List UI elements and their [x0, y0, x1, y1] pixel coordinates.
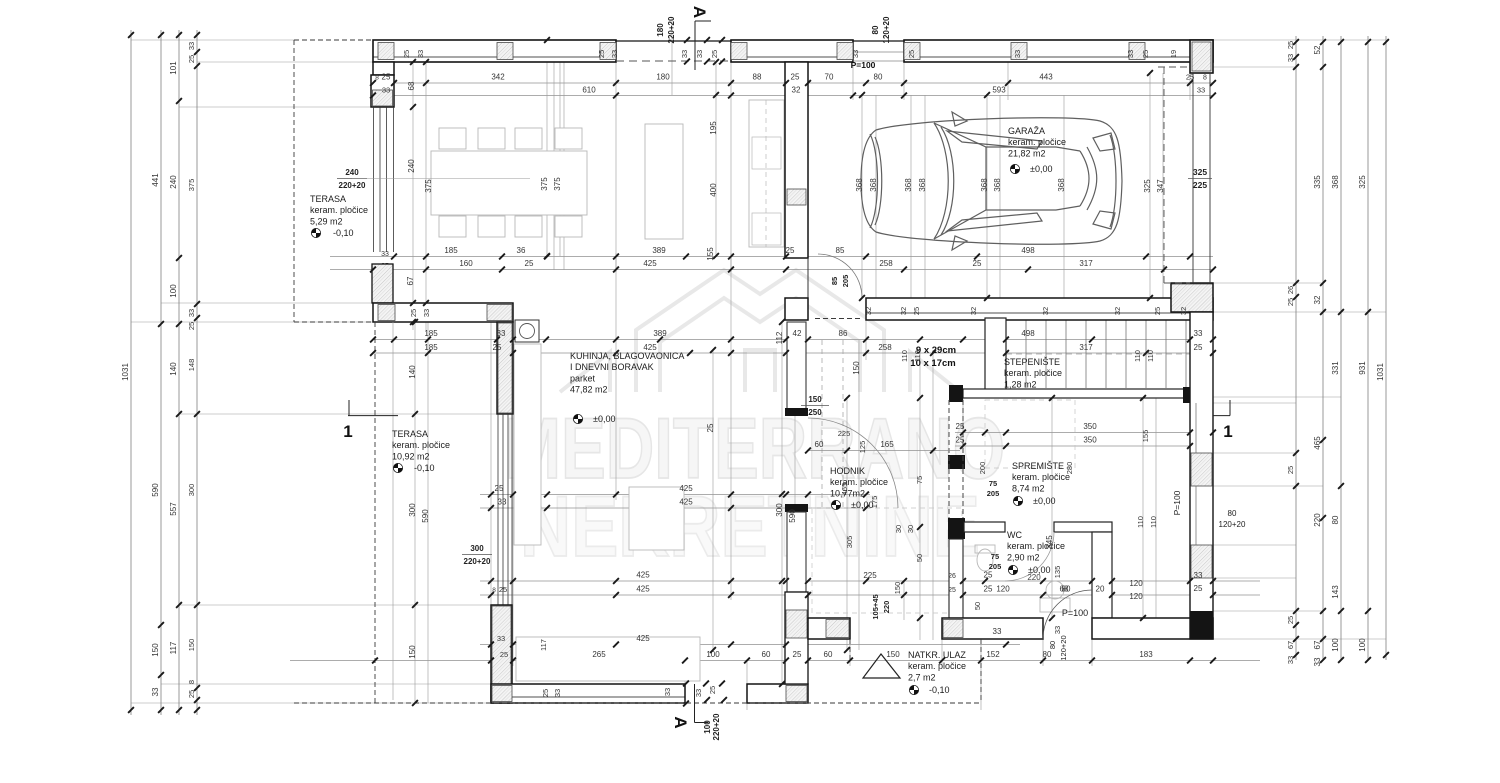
svg-text:33: 33 [187, 42, 196, 50]
svg-text:80: 80 [1228, 509, 1237, 518]
svg-text:keram. pločice: keram. pločice [830, 477, 888, 487]
wall left hatch block [372, 264, 393, 303]
wall top segment 1 [373, 40, 616, 62]
svg-text:25: 25 [708, 686, 717, 694]
svg-text:200: 200 [978, 462, 987, 475]
svg-text:205: 205 [987, 489, 1000, 498]
wall left bottom [491, 605, 512, 703]
wardrobe [749, 100, 784, 247]
svg-text:317: 317 [1079, 343, 1093, 352]
svg-text:135: 135 [1053, 566, 1062, 579]
wall bottom segment 2 [747, 684, 808, 703]
svg-text:keram. pločice: keram. pločice [908, 661, 966, 671]
svg-text:parket: parket [570, 373, 596, 383]
right dim chain 1 [1295, 36, 1297, 660]
stair south wall [963, 389, 1190, 398]
right dim chain 2 [1322, 36, 1324, 660]
dining chairs [439, 128, 466, 149]
hodnik west wall block [785, 298, 808, 320]
svg-text:117: 117 [539, 639, 548, 651]
svg-text:150: 150 [187, 639, 196, 652]
svg-text:±0,00: ±0,00 [1033, 496, 1055, 506]
east wall window lines [1195, 403, 1197, 453]
svg-text:465: 465 [1313, 436, 1322, 450]
entrance wall mid [942, 618, 1043, 639]
svg-text:80: 80 [1331, 515, 1340, 524]
kitchen counter bottom [516, 637, 700, 681]
svg-text:100: 100 [706, 650, 720, 659]
svg-text:425: 425 [679, 498, 693, 507]
svg-text:20: 20 [1096, 585, 1105, 594]
svg-text:25: 25 [706, 423, 715, 432]
ticks lower rows [488, 578, 494, 584]
dimension row lines top [373, 82, 1213, 84]
svg-text:375: 375 [424, 179, 433, 193]
svg-text:120: 120 [1129, 579, 1143, 588]
svg-text:-0,10: -0,10 [929, 685, 950, 695]
wc north wall [964, 522, 1005, 532]
svg-text:33: 33 [382, 86, 390, 95]
svg-text:67: 67 [406, 276, 415, 285]
svg-text:225: 225 [1193, 180, 1207, 190]
svg-text:25: 25 [948, 587, 956, 594]
svg-text:183: 183 [1139, 650, 1153, 659]
svg-text:85: 85 [836, 246, 845, 255]
svg-text:GARAŽA: GARAŽA [1008, 126, 1045, 136]
svg-text:110: 110 [1136, 516, 1145, 528]
right dim chain 5 [1385, 36, 1387, 660]
svg-text:389: 389 [653, 329, 667, 338]
extension lines horizontal right [1213, 39, 1386, 41]
svg-text:25: 25 [1286, 616, 1295, 624]
svg-text:33: 33 [422, 309, 431, 317]
svg-text:140: 140 [408, 365, 417, 379]
svg-text:25: 25 [1286, 41, 1295, 49]
svg-text:25: 25 [1194, 584, 1203, 593]
svg-text:120+20: 120+20 [882, 16, 891, 43]
svg-text:150: 150 [886, 650, 900, 659]
svg-text:335: 335 [1313, 175, 1322, 189]
svg-text:25: 25 [495, 484, 504, 493]
svg-text:110: 110 [1149, 516, 1158, 528]
wall top segment 3 [904, 40, 1213, 62]
wall top opening door 80 [853, 40, 904, 42]
svg-text:86: 86 [839, 329, 848, 338]
svg-text:375: 375 [553, 177, 562, 191]
svg-text:A: A [671, 716, 690, 728]
svg-text:2,7 m2: 2,7 m2 [908, 672, 936, 682]
svg-text:25: 25 [710, 50, 719, 58]
svg-text:331: 331 [1331, 361, 1340, 375]
watermark house logo [560, 270, 960, 392]
svg-text:347: 347 [1156, 179, 1165, 193]
svg-text:32: 32 [1041, 307, 1050, 315]
living sideboard [645, 124, 683, 239]
svg-text:105+45: 105+45 [871, 594, 880, 619]
svg-text:120+20: 120+20 [1219, 520, 1246, 529]
east wall [1190, 312, 1213, 639]
svg-text:I DNEVNI BORAVAK: I DNEVNI BORAVAK [570, 362, 654, 372]
svg-text:88: 88 [753, 73, 762, 82]
svg-text:258: 258 [878, 343, 892, 352]
svg-text:465: 465 [840, 483, 849, 496]
stair treads [1005, 320, 1007, 388]
svg-text:33: 33 [1053, 626, 1062, 634]
svg-text:25: 25 [187, 322, 196, 330]
svg-text:TERASA: TERASA [310, 194, 346, 204]
svg-text:70: 70 [825, 73, 834, 82]
svg-text:25: 25 [912, 307, 921, 315]
ticks vertical interior [410, 59, 416, 65]
svg-text:250: 250 [808, 408, 822, 417]
svg-text:25: 25 [499, 585, 507, 594]
svg-text:32: 32 [792, 86, 801, 95]
svg-text:P=100: P=100 [851, 60, 876, 70]
kitchen counter left [514, 344, 541, 545]
svg-text:75: 75 [915, 476, 924, 484]
svg-text:keram. pločice: keram. pločice [392, 440, 450, 450]
svg-text:152: 152 [986, 650, 1000, 659]
svg-text:205: 205 [841, 275, 850, 288]
svg-text:8: 8 [1203, 75, 1207, 82]
ticks row 3 [391, 254, 397, 260]
ticks row 4 [370, 267, 376, 273]
section line A top [694, 21, 696, 70]
svg-text:155: 155 [1141, 430, 1150, 443]
svg-text:590: 590 [151, 483, 160, 497]
svg-text:150: 150 [408, 645, 417, 659]
svg-text:33: 33 [497, 329, 506, 338]
entrance wall east [1092, 618, 1213, 639]
garage south wall [866, 298, 1213, 320]
vertical dim chain lines interior [412, 62, 414, 330]
svg-text:25: 25 [1141, 50, 1150, 58]
svg-text:425: 425 [679, 484, 693, 493]
svg-text:25: 25 [1153, 307, 1162, 315]
svg-text:101: 101 [169, 61, 178, 75]
wall top right corner [1190, 40, 1213, 73]
svg-text:WC: WC [1007, 530, 1022, 540]
svg-text:60: 60 [815, 440, 824, 449]
svg-text:75: 75 [991, 552, 999, 561]
svg-text:305: 305 [845, 536, 854, 549]
svg-text:25: 25 [409, 309, 418, 317]
svg-text:10,92 m2: 10,92 m2 [392, 451, 430, 461]
svg-text:33: 33 [1013, 50, 1022, 58]
svg-text:50: 50 [915, 554, 924, 562]
svg-text:25: 25 [187, 690, 196, 698]
svg-text:425: 425 [643, 343, 657, 352]
svg-text:52: 52 [1313, 45, 1322, 54]
svg-text:100: 100 [169, 284, 178, 298]
wall top hatch boxes [378, 43, 394, 60]
wall bottom segment 1 [491, 684, 685, 703]
svg-text:593: 593 [992, 86, 1006, 95]
car in garage [861, 112, 1122, 250]
svg-text:368: 368 [993, 178, 1002, 192]
svg-text:117: 117 [169, 641, 178, 654]
svg-text:300: 300 [187, 484, 196, 497]
svg-text:375: 375 [187, 179, 196, 192]
svg-text:400: 400 [709, 183, 718, 197]
dimension row lines mid [330, 256, 1213, 258]
wall left upper [373, 62, 394, 75]
svg-text:33: 33 [851, 50, 860, 58]
svg-text:25: 25 [984, 571, 993, 580]
east wall hatch boxes [1191, 453, 1212, 486]
kitchen west wall [497, 322, 513, 414]
svg-text:931: 931 [1358, 361, 1367, 375]
svg-text:33: 33 [694, 689, 703, 697]
svg-text:67: 67 [1313, 640, 1322, 649]
svg-text:33: 33 [187, 309, 196, 317]
svg-text:220+20: 220+20 [464, 557, 491, 566]
svg-text:120: 120 [1129, 592, 1143, 601]
svg-text:2,90 m2: 2,90 m2 [1007, 552, 1040, 562]
svg-text:keram. pločice: keram. pločice [1008, 137, 1066, 147]
svg-text:P=100: P=100 [1062, 608, 1088, 618]
svg-text:33: 33 [416, 50, 425, 58]
natkr ulaz dashed outline [980, 639, 982, 703]
svg-text:240: 240 [345, 168, 359, 177]
svg-text:25: 25 [187, 55, 196, 63]
svg-text:148: 148 [187, 359, 196, 372]
svg-text:33: 33 [381, 251, 389, 258]
svg-text:441: 441 [151, 173, 160, 187]
svg-text:185: 185 [424, 329, 438, 338]
svg-text:150: 150 [151, 643, 160, 657]
stair west wall [985, 318, 1006, 390]
svg-text:112: 112 [775, 331, 784, 344]
svg-text:33: 33 [497, 634, 505, 643]
svg-text:60: 60 [762, 650, 771, 659]
svg-text:225: 225 [838, 429, 851, 438]
svg-text:33: 33 [695, 50, 704, 58]
svg-text:±0,00: ±0,00 [1030, 164, 1052, 174]
svg-text:8: 8 [187, 680, 196, 684]
svg-text:32: 32 [1313, 295, 1322, 304]
door arc living-garage [818, 254, 862, 298]
extension lines horizontal left [131, 39, 294, 41]
ticks kitchen rows [488, 492, 494, 498]
svg-text:110: 110 [900, 350, 909, 362]
svg-text:100: 100 [1331, 638, 1340, 652]
svg-text:NATKR. ULAZ: NATKR. ULAZ [908, 650, 966, 660]
left dim chain 4 [196, 30, 198, 715]
svg-text:25: 25 [493, 343, 502, 352]
svg-text:keram. pločice: keram. pločice [310, 205, 368, 215]
wall left horizontal [373, 303, 513, 322]
svg-text:25: 25 [597, 50, 606, 58]
svg-text:SPREMIŠTE: SPREMIŠTE [1012, 461, 1064, 471]
terasa 2 bottom dashed [294, 702, 981, 704]
svg-text:25: 25 [907, 50, 916, 58]
terasa 2 dashed outline [374, 322, 376, 703]
svg-text:75: 75 [989, 479, 997, 488]
svg-text:32: 32 [864, 307, 873, 315]
svg-text:125: 125 [858, 441, 867, 454]
dimension row lines lower [480, 580, 1260, 582]
svg-text:100: 100 [1358, 638, 1367, 652]
window left upper [373, 107, 375, 252]
svg-text:220+20: 220+20 [712, 713, 721, 740]
extension lines vertical [553, 62, 555, 270]
ticks stairs rows [960, 430, 966, 436]
left dim chain 1 [130, 30, 132, 715]
svg-text:100: 100 [703, 720, 712, 734]
svg-text:345: 345 [1045, 535, 1054, 549]
svg-text:325: 325 [1358, 175, 1367, 189]
svg-text:67: 67 [1286, 641, 1295, 649]
svg-text:19: 19 [1169, 50, 1178, 58]
section line A bottom [694, 684, 696, 723]
svg-text:-0,10: -0,10 [333, 228, 354, 238]
svg-text:80: 80 [874, 73, 883, 82]
svg-text:25: 25 [402, 50, 411, 58]
svg-text:30: 30 [906, 525, 915, 533]
svg-text:80: 80 [1048, 641, 1057, 649]
svg-text:368: 368 [918, 178, 927, 192]
svg-text:33: 33 [1286, 54, 1295, 62]
svg-text:33: 33 [1286, 656, 1295, 664]
svg-text:368: 368 [904, 178, 913, 192]
right dim chain 4 [1367, 36, 1369, 660]
svg-text:26: 26 [948, 573, 956, 580]
svg-text:280: 280 [1065, 462, 1074, 475]
ticks bottom row [372, 658, 378, 664]
svg-text:5,29 m2: 5,29 m2 [310, 216, 343, 226]
svg-text:375: 375 [540, 177, 549, 191]
svg-text:443: 443 [1039, 73, 1053, 82]
hodnik projection [812, 508, 962, 613]
svg-text:350: 350 [1083, 422, 1097, 431]
svg-text:425: 425 [636, 585, 650, 594]
svg-text:25: 25 [382, 73, 391, 82]
svg-text:25: 25 [973, 259, 982, 268]
svg-text:KUHINJA, BLAGOVAONICA: KUHINJA, BLAGOVAONICA [570, 351, 684, 361]
svg-text:47,82 m2: 47,82 m2 [570, 385, 608, 395]
svg-text:25: 25 [1286, 466, 1295, 474]
svg-text:240: 240 [407, 159, 416, 173]
svg-text:21,82 m2: 21,82 m2 [1008, 148, 1046, 158]
svg-text:160: 160 [459, 259, 473, 268]
dimension row lines kitchen [480, 494, 870, 496]
svg-text:-0,10: -0,10 [414, 463, 435, 473]
svg-text:220+20: 220+20 [667, 16, 676, 43]
kitchen sink box [515, 320, 539, 342]
svg-text:HODNIK: HODNIK [830, 466, 865, 476]
svg-text:300: 300 [775, 503, 784, 517]
svg-text:350: 350 [1083, 436, 1097, 445]
svg-text:325: 325 [1143, 179, 1152, 193]
ticks row 1 [370, 80, 376, 86]
svg-text:220: 220 [1313, 513, 1322, 527]
svg-text:80: 80 [1043, 650, 1052, 659]
svg-text:33: 33 [663, 688, 672, 696]
svg-text:342: 342 [491, 73, 505, 82]
svg-text:30: 30 [894, 525, 903, 533]
ticks row 6 [370, 350, 376, 356]
wc door arc [1005, 532, 1054, 581]
svg-text:300: 300 [470, 544, 484, 553]
ticks section opening top [684, 37, 690, 43]
svg-text:80: 80 [1062, 585, 1071, 594]
svg-text:STEPENIŠTE: STEPENIŠTE [1004, 357, 1060, 367]
svg-text:317: 317 [1079, 259, 1093, 268]
svg-text:300: 300 [408, 503, 417, 517]
svg-text:25: 25 [956, 422, 965, 431]
dim numbers hodnik row [808, 450, 960, 452]
svg-text:143: 143 [1331, 585, 1340, 599]
svg-text:368: 368 [980, 178, 989, 192]
svg-text:140: 140 [169, 362, 178, 376]
wc west wall [948, 455, 965, 469]
svg-text:425: 425 [636, 634, 650, 643]
svg-text:425: 425 [643, 259, 657, 268]
svg-text:50: 50 [973, 602, 982, 610]
left dim chain 3 [178, 30, 180, 715]
svg-text:±0,00: ±0,00 [593, 414, 615, 424]
entrance door arc [1043, 590, 1092, 639]
svg-text:610: 610 [582, 86, 596, 95]
right dim chain 3 [1340, 36, 1342, 660]
left dim chain 2 [160, 30, 162, 715]
svg-text:26: 26 [1286, 286, 1295, 294]
svg-text:25: 25 [500, 650, 508, 659]
wc fixtures [975, 545, 1070, 612]
svg-text:33: 33 [680, 50, 689, 58]
svg-text:32: 32 [1113, 307, 1122, 315]
svg-text:keram. pločice: keram. pločice [1004, 368, 1062, 378]
svg-text:25: 25 [984, 585, 993, 594]
svg-text:220+20: 220+20 [339, 181, 366, 190]
svg-text:498: 498 [1021, 246, 1035, 255]
svg-text:220: 220 [1027, 573, 1041, 582]
section marker 1 right [1229, 400, 1231, 416]
svg-text:25: 25 [791, 73, 800, 82]
svg-text:180: 180 [656, 73, 670, 82]
svg-text:225: 225 [863, 571, 877, 580]
svg-text:33: 33 [1194, 571, 1203, 580]
svg-text:557: 557 [169, 502, 178, 516]
svg-text:36: 36 [517, 246, 526, 255]
entrance triangle [863, 654, 900, 678]
svg-text:33: 33 [1194, 329, 1203, 338]
svg-text:110: 110 [913, 350, 922, 362]
svg-text:33: 33 [610, 50, 619, 58]
svg-text:8,74 m2: 8,74 m2 [1012, 483, 1045, 493]
svg-text:keram. pločice: keram. pločice [1012, 472, 1070, 482]
wc east wall [1092, 532, 1112, 618]
svg-text:110: 110 [1133, 350, 1142, 362]
svg-text:180: 180 [656, 23, 665, 37]
wall top segment 2 [731, 40, 853, 62]
terasa 1 dashed outline [294, 39, 373, 41]
svg-text:590: 590 [788, 509, 797, 523]
svg-text:325: 325 [1193, 167, 1207, 177]
svg-text:425: 425 [636, 571, 650, 580]
garage door dashed [1163, 67, 1165, 283]
svg-text:150: 150 [852, 361, 861, 375]
svg-text:25: 25 [541, 689, 550, 697]
svg-text:1,28 m2: 1,28 m2 [1004, 379, 1037, 389]
svg-text:25: 25 [786, 246, 795, 255]
dining table [431, 151, 587, 215]
svg-text:60: 60 [824, 650, 833, 659]
dimension row lines stairs [955, 432, 1213, 434]
svg-text:368: 368 [869, 178, 878, 192]
wall top opening window 180 [616, 40, 731, 42]
